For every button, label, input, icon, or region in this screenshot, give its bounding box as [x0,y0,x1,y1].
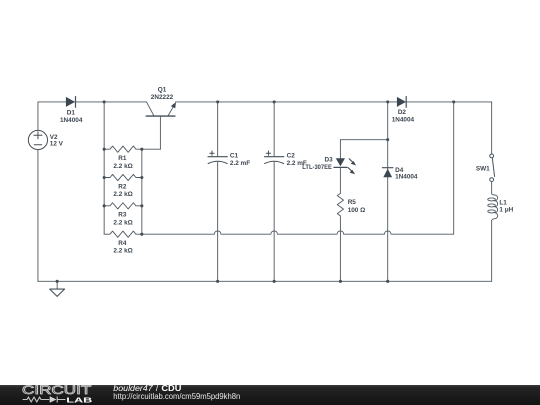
svg-text:L1: L1 [499,199,507,206]
svg-text:D1: D1 [67,109,76,116]
svg-text:R4: R4 [118,240,127,247]
svg-text:SW1: SW1 [476,166,490,173]
svg-text:2.2 kΩ: 2.2 kΩ [113,219,132,226]
svg-text:LAB: LAB [66,396,92,405]
svg-text:2.2 kΩ: 2.2 kΩ [113,248,132,255]
svg-text:100 Ω: 100 Ω [348,207,366,214]
svg-text:C1: C1 [230,153,239,160]
svg-text:D2: D2 [398,109,407,116]
svg-text:2.2 kΩ: 2.2 kΩ [113,191,132,198]
svg-text:R2: R2 [118,183,127,190]
svg-text:12 V: 12 V [50,141,64,148]
svg-text:LTL-307EE: LTL-307EE [302,164,332,171]
svg-text:1 μH: 1 μH [499,206,513,213]
svg-text:1N4004: 1N4004 [395,174,418,181]
svg-text:R3: R3 [118,212,127,219]
svg-text:http://circuitlab.com/cm59m5pd: http://circuitlab.com/cm59m5pd9kh8n [113,392,240,401]
svg-text:C2: C2 [287,153,296,160]
svg-text:2N2222: 2N2222 [151,94,174,101]
svg-text:1N4004: 1N4004 [392,117,415,124]
svg-text:D3: D3 [325,157,334,164]
svg-text:R5: R5 [348,199,357,206]
svg-text:2.2 kΩ: 2.2 kΩ [113,163,132,170]
svg-text:Q1: Q1 [158,87,167,94]
svg-text:R1: R1 [118,155,127,162]
svg-text:1N4004: 1N4004 [60,117,83,124]
svg-text:2.2 mF: 2.2 mF [230,160,250,167]
